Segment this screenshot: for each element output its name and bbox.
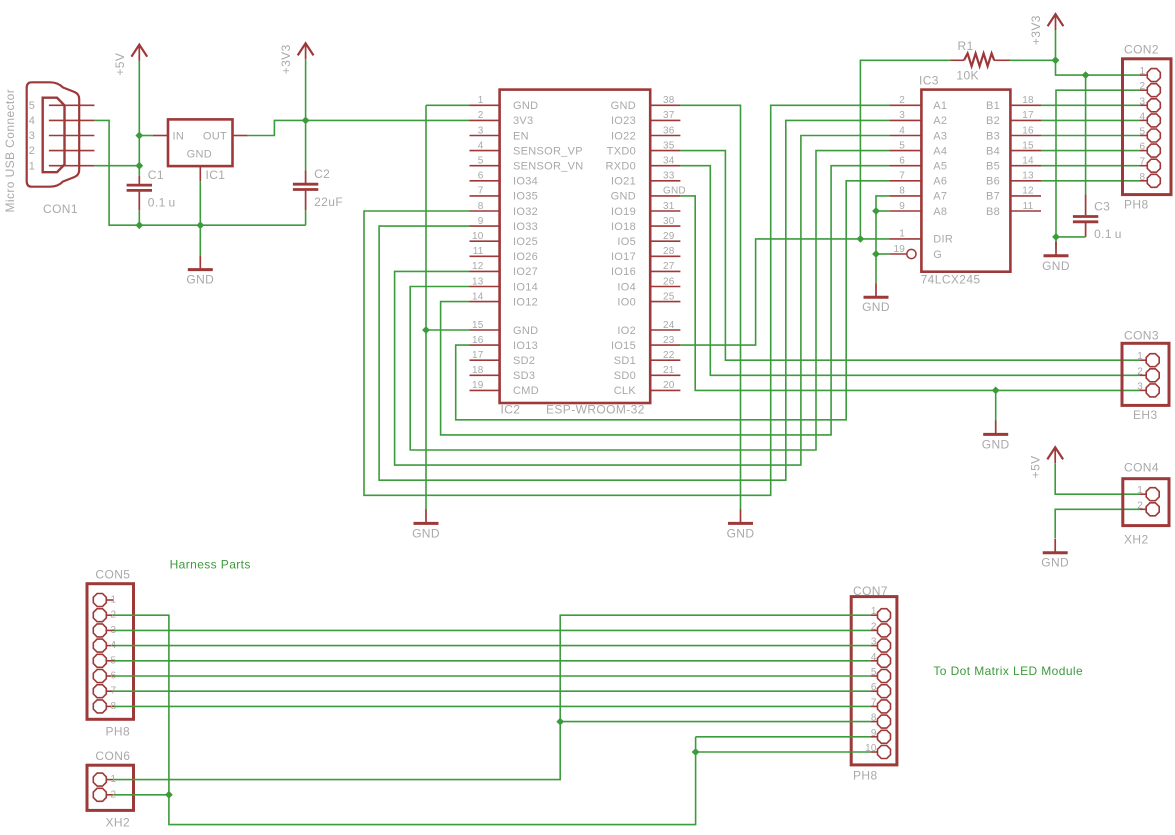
- wire CON2 pin2 GND down: [1056, 90, 1140, 249]
- svg-text:IO27: IO27: [513, 266, 538, 278]
- svg-text:2: 2: [1137, 366, 1143, 377]
- svg-text:A4: A4: [933, 145, 947, 157]
- svg-text:CON2: CON2: [1124, 43, 1159, 57]
- capacitor C1 0.1u: [127, 168, 176, 210]
- svg-text:+5V: +5V: [113, 53, 127, 76]
- CON3 pin 2: [1140, 374, 1146, 376]
- svg-text:PH8: PH8: [106, 725, 131, 739]
- svg-text:16: 16: [1022, 125, 1034, 136]
- svg-text:3V3: 3V3: [513, 115, 533, 127]
- svg-text:CON6: CON6: [95, 749, 130, 763]
- svg-text:A5: A5: [933, 161, 947, 173]
- svg-text:29: 29: [663, 231, 675, 242]
- wire R1 right to +3V3 node: [1010, 59, 1056, 61]
- wire CON5 pin7 to CON7 pin6: [114, 690, 871, 692]
- svg-text:11: 11: [473, 246, 484, 257]
- wire +5V vertical from arrow to C1: [138, 61, 140, 166]
- CON5 pin 1: [107, 599, 114, 601]
- svg-text:2: 2: [29, 145, 35, 157]
- wire +3V3 to CON2 pin1: [1056, 60, 1141, 75]
- svg-text:CLK: CLK: [614, 385, 637, 397]
- svg-text:GND: GND: [186, 273, 214, 287]
- CON4 pin 1: [1140, 493, 1146, 495]
- svg-text:2: 2: [1137, 500, 1143, 511]
- svg-text:5: 5: [871, 667, 877, 678]
- wire +5V to CON4 pin1: [1055, 463, 1140, 494]
- svg-text:CON7: CON7: [853, 584, 888, 598]
- svg-text:3: 3: [29, 130, 35, 142]
- svg-text:4: 4: [1140, 111, 1146, 122]
- junction C1 bottom / GND rail: [135, 221, 143, 229]
- svg-text:19: 19: [472, 380, 484, 391]
- wire C1 bottom to GND rail: [138, 210, 140, 225]
- connector CON4 XH2: [1123, 479, 1169, 526]
- svg-text:EN: EN: [513, 130, 529, 142]
- svg-text:SD2: SD2: [513, 355, 535, 367]
- svg-text:B3: B3: [986, 130, 1000, 142]
- IC U3: IC3 74LCX245 box: [921, 90, 1010, 272]
- svg-text:7: 7: [1140, 157, 1146, 168]
- svg-text:10K: 10K: [956, 69, 979, 83]
- wire +3V3 node to IC2 pin2 3V3: [306, 119, 470, 121]
- IC3 right pins B1-B8: [1010, 104, 1041, 106]
- svg-text:IO34: IO34: [513, 176, 538, 188]
- ground symbol below IC3: [862, 283, 890, 314]
- CON3 pin 1: [1140, 359, 1146, 361]
- svg-text:+3V3: +3V3: [279, 44, 293, 74]
- svg-text:14: 14: [1022, 156, 1034, 167]
- CON7 pin 6: [871, 690, 877, 692]
- wire B2 to CON2 pin 4: [1041, 119, 1140, 121]
- wire net IO32 from IC2 to IC3: [364, 105, 889, 495]
- junction +3V3 / OUT / C2 / 3V3 rail: [302, 117, 310, 125]
- svg-text:SENSOR_VP: SENSOR_VP: [513, 145, 583, 157]
- svg-text:SD1: SD1: [614, 355, 636, 367]
- svg-text:IO23: IO23: [611, 115, 636, 127]
- svg-text:R1: R1: [958, 39, 974, 53]
- svg-text:9: 9: [478, 216, 484, 227]
- wire +3V3 arrow stem to node: [305, 59, 307, 120]
- wire USB pin1 to +5V node: [94, 165, 139, 167]
- junction GND near CON3: [992, 387, 1000, 395]
- svg-text:XH2: XH2: [1124, 533, 1149, 547]
- svg-text:17: 17: [472, 350, 484, 361]
- wire net IO33 from IC2 to IC3: [379, 120, 889, 480]
- wire B6 to CON2 pin 8: [1041, 180, 1140, 182]
- svg-text:5: 5: [1140, 127, 1146, 138]
- svg-text:A6: A6: [933, 176, 947, 188]
- junction C3 / CON2 pin2 GND: [1052, 233, 1060, 241]
- svg-text:6: 6: [899, 156, 905, 167]
- svg-text:B1: B1: [986, 100, 1000, 112]
- wire CON5 pin6 to CON7 pin5: [114, 675, 871, 677]
- svg-text:IO15: IO15: [611, 340, 636, 352]
- svg-text:GND: GND: [1041, 556, 1069, 570]
- connector CON1 Micro USB: [27, 82, 79, 186]
- svg-text:5: 5: [29, 100, 35, 112]
- svg-text:GND: GND: [982, 437, 1010, 451]
- svg-text:1: 1: [1140, 66, 1146, 77]
- svg-text:GND: GND: [1042, 259, 1070, 273]
- CON2 pin 3: [1140, 104, 1147, 106]
- wire CON6 pin2: [114, 794, 169, 796]
- svg-text:8: 8: [871, 713, 877, 724]
- svg-text:8: 8: [478, 201, 484, 212]
- svg-text:CON1: CON1: [43, 202, 78, 216]
- svg-text:1: 1: [899, 229, 905, 240]
- svg-text:24: 24: [663, 320, 675, 331]
- CON2 pin 2: [1140, 89, 1147, 91]
- wire GND rail to ground symbol: [199, 225, 201, 255]
- IC2 right pins 38-20: [650, 104, 680, 106]
- svg-text:To Dot Matrix LED Module: To Dot Matrix LED Module: [933, 664, 1083, 678]
- svg-text:2: 2: [478, 110, 484, 121]
- wire IC1 OUT to +3V3 node: [248, 120, 306, 135]
- connector CON2 PH8: [1123, 59, 1172, 195]
- power symbol +5V (left): [113, 45, 147, 76]
- junction +3V3 / R1: [1052, 56, 1060, 64]
- wire net IO12 from IC2 to IC3: [441, 166, 890, 435]
- ground symbol below IC2 left: [412, 509, 440, 540]
- svg-text:+5V: +5V: [1029, 455, 1043, 478]
- IC3 left pins A1-A8, DIR, G: [889, 104, 921, 106]
- svg-text:22uF: 22uF: [314, 195, 343, 209]
- CON5 pin 8: [107, 705, 114, 707]
- svg-text:B2: B2: [986, 115, 1000, 127]
- svg-text:6: 6: [478, 171, 484, 182]
- svg-text:IO13: IO13: [513, 340, 538, 352]
- CON7 pin 2: [871, 629, 877, 631]
- junction +5V / C1 / USB pin1: [135, 162, 143, 170]
- svg-text:2: 2: [871, 621, 877, 632]
- svg-text:3: 3: [478, 125, 484, 136]
- svg-text:PH8: PH8: [1124, 198, 1149, 212]
- svg-text:GND: GND: [727, 526, 755, 540]
- ground symbol below IC2 right: [727, 509, 755, 540]
- svg-text:15: 15: [472, 320, 484, 331]
- wire IC2 pin1 GND: [426, 104, 470, 106]
- svg-text:7: 7: [478, 186, 484, 197]
- wire +5V to IC1 IN: [139, 135, 153, 137]
- svg-text:IC2: IC2: [501, 403, 521, 417]
- svg-text:CON4: CON4: [1124, 461, 1159, 475]
- CON7 pin 1: [871, 614, 877, 616]
- svg-text:0.1 u: 0.1 u: [148, 196, 176, 210]
- svg-text:7: 7: [899, 171, 905, 182]
- svg-text:13: 13: [1022, 171, 1034, 182]
- wire net IO27 from IC2 to IC3: [395, 136, 890, 466]
- svg-text:2: 2: [899, 95, 905, 106]
- svg-text:30: 30: [663, 216, 675, 227]
- CON6 pin 2: [107, 794, 114, 796]
- wire C3 top vertical: [1085, 75, 1087, 195]
- svg-text:XH2: XH2: [106, 816, 131, 830]
- wire RXD0 to CON3 pin2: [680, 166, 1140, 376]
- wire GND pin32 to CON3 pin3: [680, 196, 1140, 391]
- svg-text:IO5: IO5: [617, 236, 636, 248]
- svg-text:7: 7: [871, 697, 877, 708]
- CON7 pin 8: [871, 721, 877, 723]
- wire TXD0 to CON3 pin1: [680, 151, 1140, 361]
- power symbol +3V3 (left): [279, 43, 313, 74]
- wire branch to CON7 pin8: [560, 721, 870, 723]
- junction CON2 pin1 / C3: [1082, 71, 1090, 79]
- power symbol +3V3 (right): [1029, 14, 1063, 45]
- CON2 pin 6: [1140, 150, 1147, 152]
- connector CON7 PH8: [851, 597, 897, 765]
- junction G / GND chain: [872, 250, 880, 258]
- svg-text:GND: GND: [187, 149, 212, 161]
- wire IO15 to IC3 DIR: [680, 239, 889, 345]
- svg-text:IC3: IC3: [919, 74, 939, 88]
- CON2 pin 1: [1140, 74, 1147, 76]
- svg-text:IO35: IO35: [513, 191, 538, 203]
- svg-text:1: 1: [871, 606, 877, 617]
- svg-text:18: 18: [472, 365, 484, 376]
- CON2 pin 8: [1140, 180, 1147, 182]
- svg-text:2: 2: [1140, 81, 1146, 92]
- wire R1 left lead net: [860, 60, 950, 239]
- wire junction down to ground (CON3): [995, 390, 997, 420]
- svg-text:IO4: IO4: [617, 281, 636, 293]
- svg-text:A8: A8: [933, 206, 947, 218]
- svg-text:OUT: OUT: [203, 131, 227, 143]
- svg-text:20: 20: [663, 380, 675, 391]
- svg-text:Harness Parts: Harness Parts: [170, 558, 251, 572]
- ground symbol below CON3: [982, 420, 1010, 451]
- wire B1 to CON2 pin 3: [1041, 104, 1140, 106]
- wire CON6 pin1 to CON7 pin1: [114, 615, 871, 779]
- junction +5V / IN: [135, 132, 143, 140]
- CON5 pin 2: [107, 614, 114, 616]
- junction CON7 pin10 net: [692, 748, 700, 756]
- svg-text:18: 18: [1022, 95, 1034, 106]
- CON6 pin 1: [107, 779, 114, 781]
- junction DIR / R1: [857, 235, 865, 243]
- CON5 pin 3: [107, 629, 114, 631]
- svg-text:IO18: IO18: [611, 221, 636, 233]
- wire CON5 pin2 / CON6 pin2 to CON7 pins 9-10: [114, 615, 696, 824]
- svg-text:GND: GND: [663, 186, 686, 197]
- svg-text:GND: GND: [862, 300, 890, 314]
- svg-text:DIR: DIR: [933, 234, 953, 246]
- svg-text:B4: B4: [986, 145, 1000, 157]
- svg-text:GND: GND: [611, 100, 636, 112]
- svg-text:A2: A2: [933, 115, 947, 127]
- svg-text:27: 27: [663, 261, 675, 272]
- svg-text:35: 35: [663, 140, 675, 151]
- svg-text:15: 15: [1022, 140, 1034, 151]
- svg-text:28: 28: [663, 246, 675, 257]
- svg-text:IO14: IO14: [513, 281, 538, 293]
- svg-text:TXD0: TXD0: [607, 145, 636, 157]
- svg-text:1: 1: [1137, 485, 1143, 496]
- CON2 pin 4: [1140, 119, 1147, 121]
- svg-text:SENSOR_VN: SENSOR_VN: [513, 161, 584, 173]
- CON5 pin 5: [107, 660, 114, 662]
- svg-text:IO16: IO16: [611, 266, 636, 278]
- svg-text:CON5: CON5: [95, 568, 130, 582]
- svg-text:IC1: IC1: [206, 168, 226, 182]
- svg-text:5: 5: [899, 140, 905, 151]
- svg-text:A1: A1: [933, 100, 947, 112]
- connector CON6 XH2: [87, 765, 134, 810]
- svg-text:3: 3: [871, 637, 877, 648]
- wire GND vertical left: [425, 105, 427, 510]
- svg-text:CON3: CON3: [1124, 329, 1159, 343]
- wire to CON7 pin10: [696, 751, 871, 753]
- svg-text:IO17: IO17: [611, 251, 636, 263]
- CON4 pin 2: [1140, 508, 1146, 510]
- svg-text:4: 4: [899, 125, 905, 136]
- wire G branch: [876, 253, 889, 255]
- wire IC2 pin15 GND: [426, 329, 470, 331]
- svg-text:0.1 u: 0.1 u: [1094, 227, 1122, 241]
- svg-text:12: 12: [472, 261, 484, 272]
- svg-text:4: 4: [29, 115, 35, 127]
- svg-text:IO12: IO12: [513, 296, 538, 308]
- junction A8 / GND chain: [872, 207, 880, 215]
- svg-text:+3V3: +3V3: [1029, 15, 1043, 45]
- CON7 pin 5: [871, 675, 877, 677]
- svg-text:ESP-WROOM-32: ESP-WROOM-32: [546, 403, 645, 417]
- connector CON3 EH3: [1122, 343, 1169, 405]
- svg-text:74LCX245: 74LCX245: [921, 273, 981, 287]
- svg-text:13: 13: [472, 276, 484, 287]
- svg-text:4: 4: [478, 140, 484, 151]
- wire GND rail from USB pin4: [94, 120, 305, 225]
- junction GND pin15: [422, 326, 430, 334]
- CON5 pin 4: [107, 645, 114, 647]
- svg-text:6: 6: [1140, 142, 1146, 153]
- svg-text:SD0: SD0: [614, 370, 636, 382]
- wire B3 to CON2 pin 5: [1041, 135, 1140, 137]
- svg-text:GND: GND: [611, 191, 636, 203]
- svg-text:PH8: PH8: [853, 769, 878, 783]
- CON3 pin 3: [1140, 389, 1146, 391]
- svg-text:12: 12: [1022, 186, 1034, 197]
- svg-text:Micro USB Connector: Micro USB Connector: [3, 89, 17, 213]
- CON7 pin 9: [871, 736, 877, 738]
- svg-text:16: 16: [472, 335, 484, 346]
- svg-text:B5: B5: [986, 161, 1000, 173]
- svg-text:9: 9: [871, 728, 877, 739]
- voltage regulator IC1: [153, 119, 248, 181]
- svg-text:38: 38: [663, 95, 675, 106]
- svg-text:A3: A3: [933, 130, 947, 142]
- ground symbol below C3: [1042, 242, 1070, 273]
- wire to CON7 pin9: [696, 736, 871, 738]
- svg-text:C2: C2: [314, 167, 330, 181]
- svg-text:B6: B6: [986, 176, 1000, 188]
- CON7 pin 3: [871, 645, 877, 647]
- wire net IO14 from IC2 to IC3: [410, 151, 889, 450]
- svg-text:GND: GND: [513, 100, 538, 112]
- wire CON4 pin2 GND: [1055, 509, 1140, 538]
- svg-text:22: 22: [663, 350, 675, 361]
- wire CON5 pin8 to CON7 pin7: [114, 705, 871, 707]
- wire A8 branch: [876, 210, 889, 212]
- wire CON5 pin4 to CON7 pin3: [114, 645, 871, 647]
- CON2 pin 7: [1140, 165, 1147, 167]
- CON2 pin 5: [1140, 135, 1147, 137]
- IC2 left pins 1-19: [470, 104, 500, 106]
- wire IC1 GND to rail: [199, 181, 201, 225]
- svg-text:IO21: IO21: [611, 176, 636, 188]
- svg-text:B7: B7: [986, 191, 1000, 203]
- ground symbol below CON4: [1041, 539, 1069, 570]
- svg-text:33: 33: [663, 171, 675, 182]
- svg-text:14: 14: [472, 291, 484, 302]
- svg-text:11: 11: [1023, 201, 1034, 212]
- svg-text:10: 10: [472, 231, 484, 242]
- svg-text:CMD: CMD: [513, 385, 539, 397]
- svg-text:5: 5: [478, 156, 484, 167]
- svg-text:GND: GND: [513, 325, 538, 337]
- wire C2 bottom to GND rail: [305, 210, 307, 225]
- svg-text:SD3: SD3: [513, 370, 535, 382]
- svg-text:37: 37: [663, 110, 675, 121]
- svg-text:3: 3: [1140, 96, 1146, 107]
- wire net IO13 from IC2 to IC3: [456, 181, 890, 420]
- svg-text:8: 8: [899, 186, 905, 197]
- svg-text:4: 4: [871, 652, 877, 663]
- svg-text:IO19: IO19: [611, 206, 636, 218]
- junction IC1 GND / GND rail: [196, 221, 204, 229]
- svg-text:23: 23: [663, 335, 675, 346]
- wire +5V to C1 top: [138, 166, 140, 176]
- svg-text:IN: IN: [173, 131, 185, 143]
- resistor R1 10K: [950, 39, 1010, 83]
- svg-text:31: 31: [663, 201, 675, 212]
- svg-text:G: G: [933, 249, 942, 261]
- svg-text:B8: B8: [986, 206, 1000, 218]
- wire B5 to CON2 pin 7: [1041, 165, 1140, 167]
- svg-text:1: 1: [111, 595, 117, 606]
- wire CON5 pin3 to CON7 pin2: [114, 629, 871, 631]
- junction CON7 pin8 net: [556, 718, 564, 726]
- wire +3V3 node down to C2: [305, 120, 307, 170]
- svg-text:1: 1: [1137, 351, 1143, 362]
- svg-text:17: 17: [1022, 110, 1034, 121]
- svg-text:36: 36: [663, 125, 675, 136]
- svg-text:EH3: EH3: [1133, 408, 1158, 422]
- svg-text:1: 1: [478, 95, 484, 106]
- wire +3V3 arrow stem right: [1055, 30, 1057, 60]
- svg-text:A7: A7: [933, 191, 947, 203]
- capacitor C3 0.1u: [1073, 195, 1122, 242]
- svg-text:GND: GND: [412, 526, 440, 540]
- CON5 pin 7: [107, 690, 114, 692]
- ground symbol under IC1: [186, 256, 214, 287]
- connector CON5 PH8: [87, 584, 134, 720]
- svg-text:IO32: IO32: [513, 206, 538, 218]
- svg-text:3: 3: [1137, 381, 1143, 392]
- junction CON6 pin2 / CON5 pin2: [165, 791, 173, 799]
- CON1 pins 5..1: [49, 104, 95, 106]
- svg-text:IO22: IO22: [611, 130, 636, 142]
- svg-text:26: 26: [663, 276, 675, 287]
- svg-text:IO2: IO2: [617, 325, 636, 337]
- svg-text:IO0: IO0: [617, 296, 636, 308]
- CON5 pin 6: [107, 675, 114, 677]
- svg-text:8: 8: [1140, 172, 1146, 183]
- svg-text:6: 6: [871, 682, 877, 693]
- svg-text:RXD0: RXD0: [605, 161, 636, 173]
- svg-text:3: 3: [899, 110, 905, 121]
- capacitor C2 22uF: [293, 167, 343, 210]
- svg-text:IO25: IO25: [513, 236, 538, 248]
